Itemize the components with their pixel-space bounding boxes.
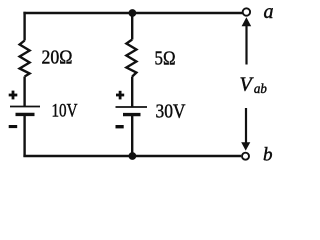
node: top junction <box>129 9 137 17</box>
Vab arrow up head <box>242 17 252 26</box>
battery 10V negative plate <box>16 113 35 116</box>
wire: left battery to bottom <box>23 114 25 157</box>
wire: middle battery to bottom <box>131 115 133 156</box>
node: bottom junction <box>129 152 137 160</box>
battery 10V minus sign <box>9 125 18 128</box>
svg-text:10V: 10V <box>52 101 78 122</box>
svg-text:a: a <box>264 1 274 23</box>
svg-text:Vab: Vab <box>240 74 267 98</box>
bottom wire <box>23 155 241 157</box>
battery 30V positive plate <box>116 106 148 108</box>
resistor 20ohm <box>20 41 30 77</box>
wire: left branch upper <box>23 12 25 41</box>
svg-text:b: b <box>263 145 273 166</box>
wire: Vab arrow upper shaft <box>245 26 247 65</box>
battery 30V negative plate <box>123 113 141 116</box>
terminal b <box>242 153 249 160</box>
svg-text:5Ω: 5Ω <box>155 48 176 70</box>
wire: middle branch upper <box>131 13 133 40</box>
wire: Vab arrow lower shaft <box>245 108 247 143</box>
battery 10V plus sign <box>9 91 18 100</box>
Vab arrow down head <box>241 142 250 150</box>
battery 30V plus sign <box>116 91 124 100</box>
wire: left resistor to battery <box>23 77 25 107</box>
battery 30V minus sign <box>116 125 124 128</box>
svg-text:20Ω: 20Ω <box>42 47 73 69</box>
top wire <box>23 12 242 14</box>
svg-text:30V: 30V <box>156 101 186 123</box>
terminal a <box>243 8 250 15</box>
battery 10V positive plate <box>10 106 40 108</box>
resistor 5ohm <box>126 40 136 77</box>
wire: middle resistor to battery <box>131 77 133 108</box>
